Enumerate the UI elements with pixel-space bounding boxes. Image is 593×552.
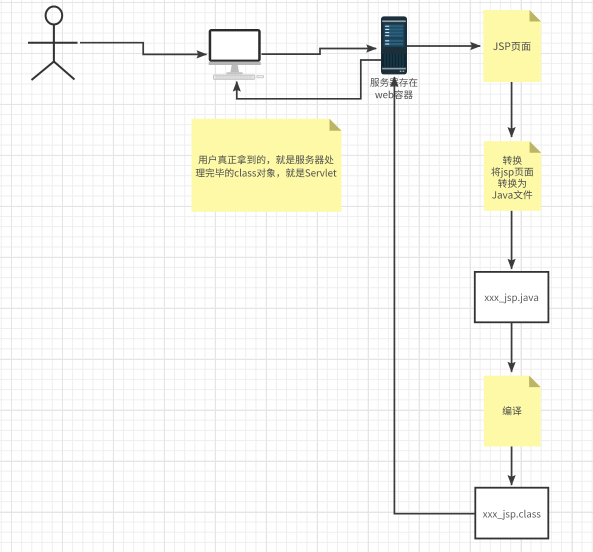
wire class box back up to server (394, 77, 475, 514)
wire server to monitor (response) (237, 60, 381, 99)
note: 编译 (484, 376, 541, 447)
wire actor to monitor (80, 43, 207, 55)
wire compile note to class box (511, 447, 513, 486)
wire convert note to java box (511, 211, 513, 269)
note: 转换 将jsp页面 转换为 Java文件 (484, 141, 541, 211)
note: JSP 页面 (483, 10, 541, 82)
box: xxx_jsp.java (475, 272, 549, 322)
server tower icon (381, 16, 407, 74)
actor (user stick figure) (28, 7, 78, 81)
wire java box to compile note (511, 322, 513, 372)
box: xxx_jsp.class (475, 488, 548, 539)
monitor (computer) (209, 29, 264, 79)
wire server to JSP note (407, 45, 480, 47)
label: 服务器存在 (370, 78, 417, 87)
note: user explanation (192, 119, 342, 212)
label: web容器 (375, 90, 413, 99)
wire monitor to server (262, 49, 377, 55)
wire JSP note to convert note (511, 82, 513, 137)
